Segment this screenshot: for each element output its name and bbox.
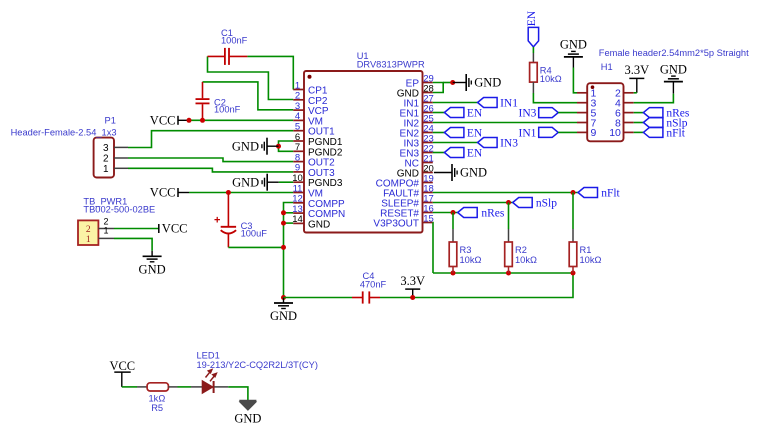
svg-text:1kΩ: 1kΩ bbox=[149, 394, 166, 404]
svg-text:nSlp: nSlp bbox=[536, 198, 557, 210]
wire: R3 top lead bbox=[452, 213, 454, 230]
net label nSlp at pin 17 bbox=[513, 198, 558, 210]
U1 pin-1 marker dot bbox=[308, 75, 312, 79]
resistor R1 bbox=[569, 229, 577, 273]
svg-text:10kΩ: 10kΩ bbox=[540, 74, 562, 84]
svg-text:470nF: 470nF bbox=[360, 279, 387, 289]
svg-text:GND: GND bbox=[234, 411, 261, 425]
svg-text:nFlt: nFlt bbox=[666, 128, 685, 140]
svg-text:3.3V: 3.3V bbox=[624, 63, 649, 77]
TB_PWR1 pin 1 bbox=[86, 226, 114, 245]
U1 pin 10 (PGND3) bbox=[292, 173, 343, 189]
net label EN at U1 pin 24 bbox=[444, 128, 483, 140]
U1 pin 14 (GND) bbox=[292, 214, 330, 230]
U1 pin 11 (VM) bbox=[293, 183, 323, 199]
H1 pins 1/2 bbox=[577, 88, 634, 100]
U1 pin 13 (COMPN) bbox=[292, 204, 345, 220]
junction at EP GND flag bbox=[450, 80, 455, 85]
capacitor C2 bbox=[196, 82, 210, 120]
wire: pullup bus R3-R2-R1 bbox=[433, 272, 573, 274]
capacitor C3 (polarized 100uF) bbox=[214, 193, 236, 248]
wire: C1 right plate to U1 pin 1 (CP1 net) bbox=[247, 56, 293, 89]
svg-text:GND: GND bbox=[474, 76, 501, 90]
op-amp/driver IC U1 body bbox=[304, 71, 423, 233]
wire: C3 bottom to ground vertical bbox=[228, 246, 283, 248]
U1 pin 3 (VCP) bbox=[293, 101, 329, 117]
svg-text:9: 9 bbox=[591, 127, 597, 139]
wire: U1 pin 29 EP to pin 28 GND bbox=[433, 83, 443, 93]
net label nSlp at H1 pin 8 bbox=[643, 118, 687, 130]
net label EN at U1 pin 22 bbox=[444, 148, 483, 160]
svg-text:10: 10 bbox=[609, 127, 621, 139]
svg-text:1: 1 bbox=[103, 164, 109, 175]
svg-text:100uF: 100uF bbox=[241, 229, 268, 239]
wire: H1 pin 2 to 3.3V bbox=[634, 92, 637, 94]
junction on VM wire at C3 bbox=[226, 190, 231, 195]
wire: U1 pin 18 FAULT# to nFlt tag and R1 bbox=[433, 192, 578, 194]
net label IN1 at U1 pin 27 bbox=[478, 98, 519, 110]
svg-text:R2: R2 bbox=[515, 245, 527, 255]
svg-text:10kΩ: 10kΩ bbox=[580, 255, 602, 265]
P1 pin 2 bbox=[103, 154, 128, 165]
wire: U1 pin 26 to EN tag bbox=[433, 112, 445, 114]
wire: H1 pin 10 to nFlt tag bbox=[634, 131, 644, 133]
svg-text:R3: R3 bbox=[460, 245, 472, 255]
svg-text:VCC: VCC bbox=[150, 114, 176, 128]
H1 pins 9/10 bbox=[577, 127, 634, 139]
ground symbol at LED (filled triangle) bbox=[234, 401, 261, 426]
wire: EP to GND flag bbox=[443, 82, 453, 84]
wire: U1 pin 24 to EN tag bbox=[433, 132, 445, 134]
U1 pin 27 (IN1) bbox=[403, 93, 433, 109]
svg-text:GND: GND bbox=[232, 175, 259, 189]
wire: R2 top lead bbox=[508, 203, 510, 230]
svg-text:GND: GND bbox=[232, 139, 259, 153]
H1 pin-1 marker dot bbox=[591, 85, 595, 89]
svg-text:3: 3 bbox=[103, 143, 109, 154]
wire: U1 pin 16 RESET# to nRes tag and R3 bbox=[433, 212, 458, 214]
label R1 value bbox=[580, 245, 602, 265]
resistor R3 bbox=[449, 229, 457, 273]
svg-text:H1: H1 bbox=[601, 62, 613, 72]
junction at PGND GND flag bbox=[276, 144, 281, 149]
junction on VM wire at VCC flag bbox=[187, 118, 192, 123]
GND net flag at U1 pins 6/7 bbox=[232, 138, 279, 155]
svg-text:EN: EN bbox=[467, 148, 483, 160]
wire: U1 pin 15 V3P3OUT down to pullup bus bbox=[432, 223, 434, 274]
svg-text:EN: EN bbox=[526, 10, 538, 26]
wire: U1 pin 27 to IN1 tag bbox=[433, 102, 478, 104]
label U1 value DRV8313PWPR bbox=[357, 60, 425, 70]
junction at R2 top bbox=[506, 200, 511, 205]
P1 pin 1 bbox=[103, 164, 128, 175]
label C1 value bbox=[221, 28, 248, 45]
GND net flag at U1 pin 20 bbox=[434, 164, 487, 181]
capacitor C1 bbox=[208, 48, 248, 65]
wire: R4 bottom to H1 pin 3 bbox=[533, 93, 577, 103]
wire: VCC to R5 bbox=[122, 386, 137, 388]
junction bus at R2 bbox=[506, 271, 511, 276]
svg-text:R1: R1 bbox=[580, 245, 592, 255]
wire: U1 pin 10 to GND flag (PGND3) bbox=[279, 181, 294, 183]
label C4 value bbox=[360, 271, 387, 290]
wire: TB pin 1 to GND bbox=[114, 238, 152, 250]
U1 pin 8 (OUT2) bbox=[293, 152, 335, 168]
wire: U1 pins 12,13,14 to ground rail (COMPP/COMPN/GND) bbox=[284, 203, 294, 298]
svg-text:P1: P1 bbox=[105, 116, 116, 126]
3.3V power flag at C4 bbox=[400, 274, 425, 298]
junction ground rail at C3 wire bbox=[281, 245, 286, 250]
svg-text:100nF: 100nF bbox=[221, 36, 248, 46]
wire: H1 pin 6 to nRes tag bbox=[634, 112, 644, 114]
VCC power flag at TB_PWR1 bbox=[159, 222, 188, 236]
svg-text:10kΩ: 10kΩ bbox=[515, 255, 537, 265]
svg-text:nRes: nRes bbox=[481, 208, 505, 220]
label TB_PWR1 value bbox=[83, 204, 155, 214]
U1 pin 9 (OUT3) bbox=[293, 163, 335, 179]
net label EN at U1 pin 26 bbox=[444, 108, 483, 120]
junction bus at R1 bbox=[571, 271, 576, 276]
H1 pins 3/4 bbox=[577, 98, 634, 110]
U1 pin 4 (VM) bbox=[293, 111, 323, 127]
junction bus at R3 bbox=[451, 271, 456, 276]
svg-text:2: 2 bbox=[86, 225, 91, 235]
wire: C4 right to 3.3V node and R1 bottom bbox=[380, 273, 573, 298]
svg-text:VCC: VCC bbox=[109, 359, 135, 373]
svg-text:GND: GND bbox=[460, 166, 487, 180]
U1 pin 16 (RESET#) bbox=[380, 203, 434, 219]
GND net flag at U1 pin 10 bbox=[232, 174, 279, 191]
svg-text:IN1: IN1 bbox=[519, 128, 537, 140]
U1 pin 24 (EN2) bbox=[400, 123, 434, 139]
U1 pin 23 (IN3) bbox=[403, 133, 433, 149]
resistor R4 bbox=[530, 53, 538, 93]
net label nRes at pin 16 bbox=[458, 208, 505, 220]
wire: C1 left plate to U1 pin 2 (CP2 net) bbox=[208, 56, 294, 99]
svg-text:IN3: IN3 bbox=[500, 138, 518, 150]
svg-text:GND: GND bbox=[270, 309, 297, 323]
U1 pin 15 (V3P3OUT) bbox=[373, 213, 433, 229]
label P1 reference bbox=[105, 116, 116, 126]
VCC power flag at LED circuit bbox=[109, 359, 135, 387]
LED LED1 bbox=[191, 369, 228, 393]
label P1 value Header-Female bbox=[11, 127, 117, 137]
svg-text:14: 14 bbox=[292, 214, 303, 225]
wire: P1 pin 2 to U1 pin 8 (OUT2) bbox=[128, 158, 293, 162]
svg-text:GND: GND bbox=[560, 38, 587, 52]
label C2 value bbox=[214, 98, 241, 115]
junction at R3 top bbox=[451, 210, 456, 215]
U1 pin 20 (GND) bbox=[397, 163, 434, 179]
label R2 value bbox=[515, 245, 537, 265]
wire: U1 pin 25 IN2 to H1 pin 7 bbox=[433, 122, 577, 124]
U1 pin 1 (CP1) bbox=[293, 80, 328, 96]
svg-text:Female header2.54mm2*5p Straig: Female header2.54mm2*5p Straight bbox=[599, 48, 749, 58]
wire: U1 pin 23 to IN3 tag bbox=[433, 142, 478, 144]
U1 pin 22 (EN3) bbox=[400, 143, 434, 159]
svg-text:19-213/Y2C-CQ2R2L/3T(CY): 19-213/Y2C-CQ2R2L/3T(CY) bbox=[197, 360, 318, 370]
svg-text:TB002-500-02BE: TB002-500-02BE bbox=[83, 204, 155, 214]
U1 pin 26 (EN1) bbox=[400, 103, 434, 119]
wire: U1 pin 13 stub to ground rail bbox=[284, 212, 294, 214]
wire: TB pin 2 to VCC bbox=[114, 228, 159, 230]
wire: U1 pin 17 SLEEP# to nSlp tag and R2 bbox=[433, 202, 513, 204]
U1 pin 19 (COMPO#) bbox=[376, 173, 434, 189]
ground symbol GND at TB_PWR1 bbox=[139, 251, 166, 276]
svg-text:1: 1 bbox=[86, 235, 91, 245]
label R4 value bbox=[540, 66, 562, 84]
resistor R2 bbox=[505, 229, 513, 273]
H1 pins 7/8 bbox=[577, 117, 634, 129]
svg-text:EN: EN bbox=[467, 128, 483, 140]
U1 pin 17 (SLEEP#) bbox=[381, 193, 434, 209]
ground symbol GND at bottom of ground rail bbox=[270, 298, 297, 324]
net label nFlt at pin 18 bbox=[578, 188, 621, 200]
wire: LED1 cathode to GND bbox=[228, 387, 248, 400]
svg-text:DRV8313PWPR: DRV8313PWPR bbox=[357, 60, 425, 70]
label LED1 value bbox=[197, 360, 318, 370]
svg-text:nFlt: nFlt bbox=[601, 188, 620, 200]
wire: IN3 tag to H1 pin 5 bbox=[558, 112, 577, 114]
U1 pin 12 (COMPP) bbox=[292, 194, 345, 210]
wire: P1 pin 3 to U1 pin 5 (OUT1) bbox=[128, 131, 293, 148]
ground symbol GND at H1 pin 4 bbox=[660, 62, 687, 93]
wire: R5 to LED1 bbox=[178, 386, 192, 388]
U1 pin 28 (GND) bbox=[397, 83, 434, 99]
wire: U1 pin 14 stub to ground rail bbox=[284, 222, 294, 224]
U1 pin 25 (IN2) bbox=[403, 113, 433, 129]
H1 pins 5/6 bbox=[577, 107, 634, 119]
svg-text:+: + bbox=[214, 215, 220, 227]
junction ground rail at bottom corner bbox=[281, 295, 286, 300]
resistor R5 bbox=[137, 383, 178, 391]
label TB_PWR1 reference bbox=[83, 196, 127, 206]
terminal block TB_PWR1 body bbox=[78, 220, 98, 245]
U1 pin 18 (FAULT#) bbox=[383, 183, 434, 199]
U1 pin 21 (NC) bbox=[405, 153, 434, 169]
wire: IN1 tag to H1 pin 9 bbox=[558, 131, 577, 133]
svg-text:IN1: IN1 bbox=[500, 98, 518, 110]
junction on VM wire at C2 bbox=[200, 118, 205, 123]
label C3 value bbox=[241, 221, 268, 238]
TB_PWR1 pin 2 bbox=[86, 217, 114, 235]
svg-text:GND: GND bbox=[139, 262, 166, 276]
wire: U1 pins 6,7 to GND flag (PGND) bbox=[279, 141, 294, 151]
net label IN3 at H1 pin 5 bbox=[519, 108, 559, 120]
wire: VCC to U1 pin 4 (VM net) bbox=[189, 119, 293, 121]
wire: H1 pin 8 to nSlp tag bbox=[634, 122, 644, 124]
svg-text:10kΩ: 10kΩ bbox=[460, 255, 482, 265]
wire: EN tag to R4 bbox=[532, 47, 534, 53]
connector H1 body bbox=[587, 83, 623, 141]
junction at 3.3V flag on wire bbox=[410, 295, 415, 300]
junction ground rail at pin 14 bbox=[281, 221, 286, 226]
connector P1 body bbox=[94, 138, 114, 178]
capacitor C4 bbox=[352, 291, 380, 303]
svg-text:3.3V: 3.3V bbox=[400, 274, 425, 288]
svg-text:EN: EN bbox=[467, 108, 483, 120]
net label nFlt at H1 pin 10 bbox=[643, 127, 685, 139]
label H1 reference bbox=[601, 62, 613, 72]
label H1 value Female header bbox=[599, 48, 749, 58]
U1 pin 7 (PGND2) bbox=[293, 142, 343, 158]
GND net flag at U1 pin 29 bbox=[453, 74, 502, 91]
svg-text:R5: R5 bbox=[151, 403, 163, 413]
wire: C2 top to U1 pin 3 (VCP net) bbox=[203, 82, 294, 110]
U1 pin 29 (EP) bbox=[406, 73, 434, 89]
svg-text:1: 1 bbox=[104, 226, 109, 236]
label LED1 reference bbox=[197, 351, 220, 361]
U1 pin 5 (OUT1) bbox=[293, 122, 335, 138]
wire: VCC to U1 pin 11 (VM net) bbox=[189, 192, 293, 194]
wire: R1 top lead bbox=[572, 193, 574, 230]
wire: P1 pin 1 to U1 pin 9 (OUT3) bbox=[128, 168, 293, 172]
VCC power flag at U1 pin 4 (VM) bbox=[150, 114, 189, 128]
wire: ground rail to C4 left bbox=[284, 297, 353, 299]
net label IN1 at H1 pin 9 bbox=[519, 127, 559, 139]
label R3 value bbox=[460, 245, 482, 265]
junction ground rail at pin 13 bbox=[281, 210, 286, 215]
svg-text:VCC: VCC bbox=[150, 186, 176, 200]
wire: U1 pin 22 to EN tag bbox=[433, 152, 445, 154]
junction at R1 top bbox=[571, 190, 576, 195]
net label EN (vertical) above R4 bbox=[526, 10, 539, 47]
wire: GND to H1 pin 1 bbox=[573, 68, 577, 93]
ground symbol GND above H1 pin 1 bbox=[560, 38, 587, 68]
P1 pin 3 bbox=[103, 143, 128, 154]
U1 pin 2 (CP2) bbox=[293, 91, 328, 107]
label U1 reference bbox=[357, 51, 369, 61]
net label nRes at H1 pin 6 bbox=[643, 108, 690, 120]
svg-text:100nF: 100nF bbox=[214, 105, 241, 115]
3.3V power flag at H1 pin 2 bbox=[624, 63, 649, 93]
net label IN3 at U1 pin 23 bbox=[478, 138, 519, 150]
svg-text:V3P3OUT: V3P3OUT bbox=[373, 219, 419, 230]
svg-text:IN3: IN3 bbox=[519, 108, 537, 120]
wire: H1 pin 4 to GND bbox=[634, 94, 674, 103]
svg-text:GND: GND bbox=[660, 62, 687, 76]
U1 pin 6 (PGND1) bbox=[293, 132, 343, 148]
VCC power flag at U1 pin 11 (VM) bbox=[150, 186, 189, 200]
svg-text:GND: GND bbox=[308, 219, 330, 230]
label R5 value bbox=[149, 394, 166, 414]
svg-text:Header-Female-2.54_1x3: Header-Female-2.54_1x3 bbox=[11, 127, 117, 137]
svg-text:VCC: VCC bbox=[162, 222, 188, 236]
